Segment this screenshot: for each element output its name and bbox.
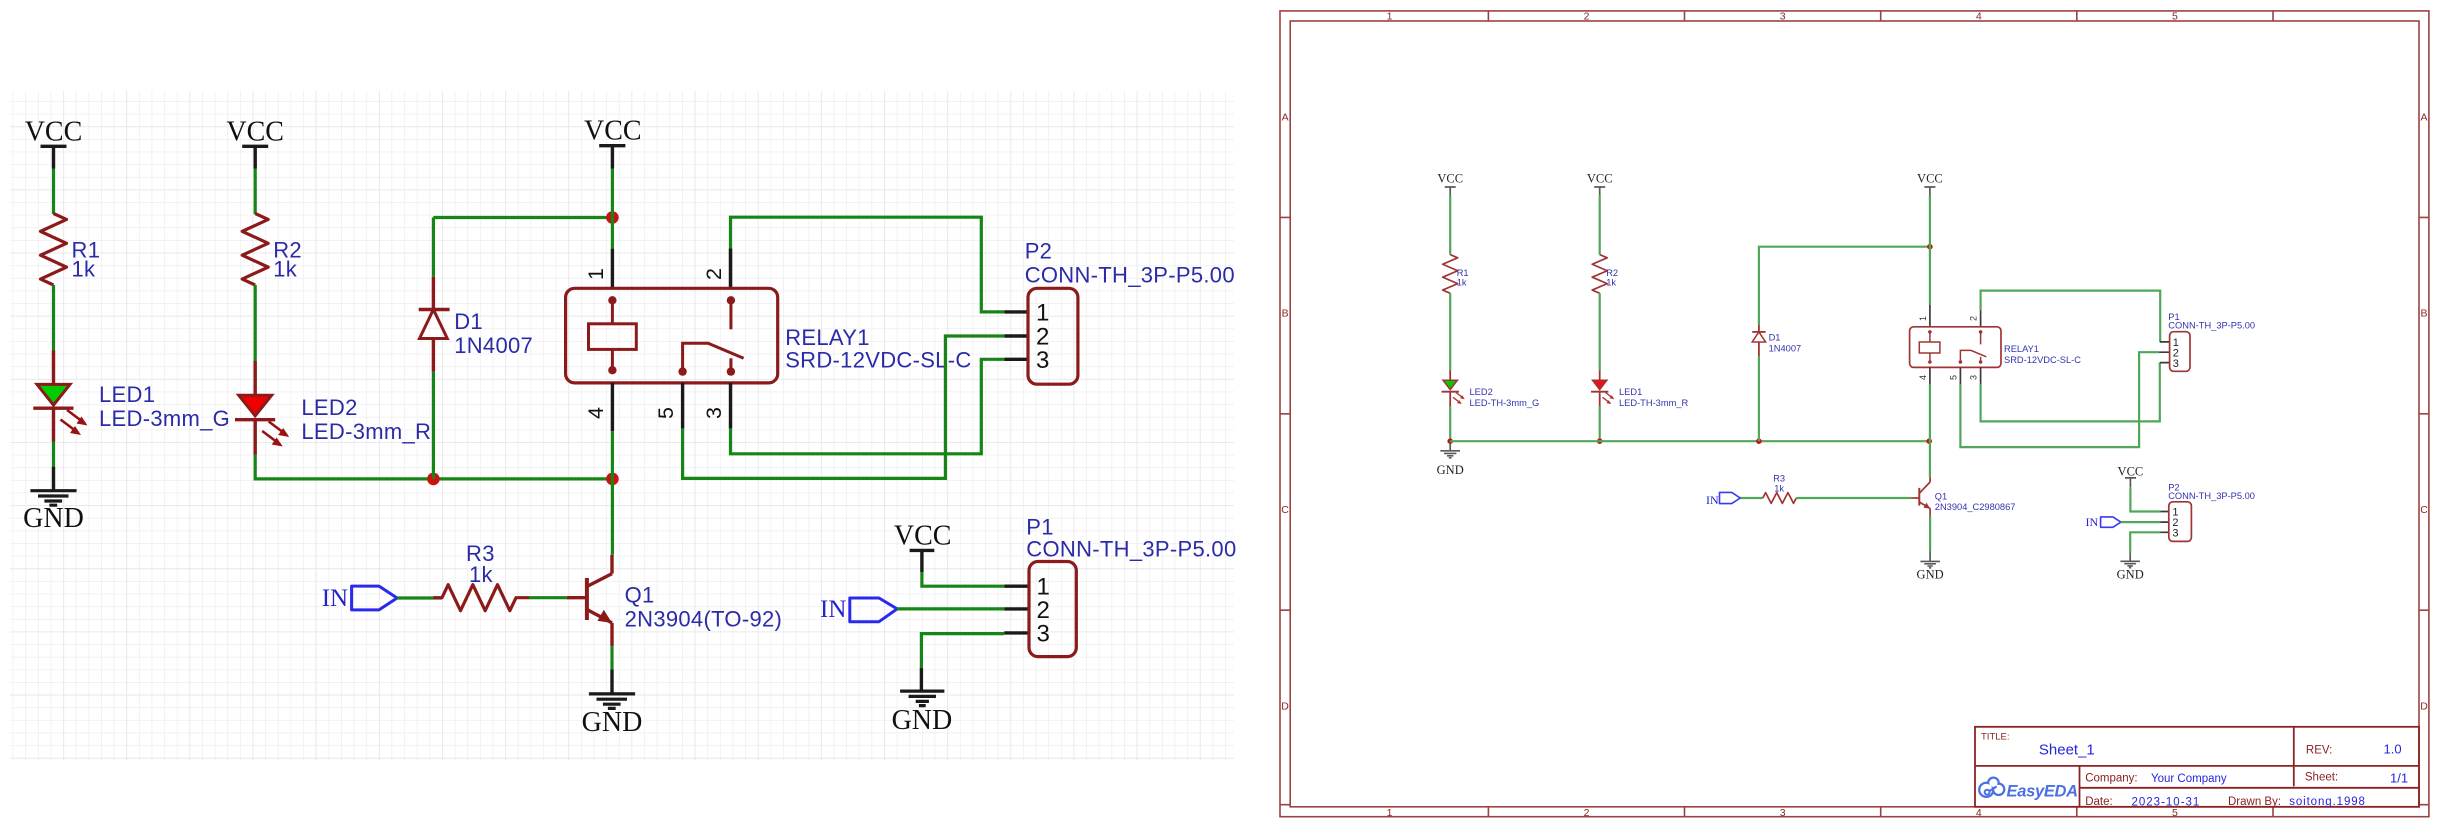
svg-text:SRD-12VDC-SL-C: SRD-12VDC-SL-C [2004,355,2081,365]
svg-text:GND: GND [1437,463,1464,477]
relay pin 3 stub (right) [1980,367,1982,384]
relay pin 4 stub [611,383,614,431]
LED LED2 green (right) [1442,371,1540,409]
svg-text:Date:: Date: [2085,796,2113,808]
svg-text:RELAY1: RELAY1 [2004,344,2039,354]
svg-text:2: 2 [1584,11,1590,23]
svg-text:4: 4 [1918,375,1928,380]
LED LED2 (red) [235,361,431,455]
junction (LED2 / rail / GND) [1447,438,1453,444]
svg-text:1k: 1k [72,257,97,282]
svg-text:P2: P2 [1025,239,1053,264]
relay pin 5 stub (right) [1959,367,1961,384]
wire R1 to LED1 [52,285,55,351]
svg-text:LED-3mm_R: LED-3mm_R [301,419,431,444]
svg-text:3: 3 [1969,375,1979,380]
svg-text:IN: IN [1706,493,1719,507]
diode D1 1N4007 [419,277,533,372]
power flag VCC (col R2) [226,117,284,169]
wire LED2 to rail (right) [1449,406,1451,441]
relay RELAY1 body (right) [1910,327,2082,368]
svg-text:3: 3 [702,407,726,419]
sheet border frame [1280,11,2429,817]
svg-text:R1: R1 [1457,268,1469,278]
svg-text:VCC: VCC [2118,465,2144,479]
left panel grid background [10,91,1234,760]
frame row letters (left) [1281,111,1289,712]
wire relay pin 2 to P2 pin 1 [731,217,1005,312]
svg-text:LED-TH-3mm_R: LED-TH-3mm_R [1619,398,1688,408]
svg-text:LED-TH-3mm_G: LED-TH-3mm_G [1470,398,1540,408]
svg-text:5: 5 [654,407,678,419]
ground GND (Q1) [582,669,643,738]
svg-text:VCC: VCC [1917,172,1943,186]
junction (pin4 / bottom rail / Q1 collector) [606,473,619,486]
net flag IN (to R3) [322,585,397,612]
svg-text:soitong.1998: soitong.1998 [2289,796,2366,808]
svg-text:LED1: LED1 [1619,387,1642,397]
ground GND (col R1, right) [1437,441,1464,477]
power flag VCC (relay column) [584,116,642,169]
wire VCC to top rail junction [611,169,614,218]
svg-text:A: A [1282,111,1289,123]
wire LED1 to rail (right) [1599,406,1601,441]
svg-text:Drawn By:: Drawn By: [2228,796,2281,808]
svg-text:CONN-TH_3P-P5.00: CONN-TH_3P-P5.00 [2168,321,2255,331]
title block [1975,727,2419,809]
wire R3 to Q1 base [529,596,567,599]
wire IN to P1 pin 2 [897,607,1004,610]
wire VCC to R2 [254,169,257,215]
wire R3 to Q1 base (right) [1796,497,1911,499]
relay pin 3 stub [729,383,732,429]
power flag VCC (col R2, right) [1587,172,1613,195]
resistor R3 (right) [1763,474,1797,504]
svg-text:1k: 1k [469,562,494,587]
svg-text:5: 5 [2172,11,2178,23]
junction (top rail / VCC column, right) [1927,244,1933,250]
wire relay pin 3 to P1 pin 3 (right) [1981,363,2160,422]
svg-text:C: C [1281,504,1289,516]
svg-text:Q1: Q1 [1935,492,1947,502]
wire relay pin 5 to P1 pin 2 (right) [1960,352,2159,447]
diode D1 1N4007 (right) [1752,325,1801,356]
svg-text:2N3904_C2980867: 2N3904_C2980867 [1935,502,2016,512]
junction (LED1 / rail) [1597,438,1603,444]
svg-text:VCC: VCC [226,117,284,148]
svg-text:CONN-TH_3P-P5.00: CONN-TH_3P-P5.00 [2168,491,2255,501]
wire VCC to P2 pin 1 (right) [2130,487,2160,511]
svg-text:VCC: VCC [584,116,642,147]
svg-text:RELAY1: RELAY1 [785,325,870,350]
svg-text:B: B [2420,308,2427,320]
wire D1 bottom lead to rail [432,372,435,479]
wire relay pin 4 to bottom rail [611,431,614,479]
wire IN to P2 pin 2 (right) [2121,521,2161,523]
frame column numbers (top) [1387,11,2178,23]
wire Q1 collector to junction [611,479,614,555]
resistor R1 (right) [1443,255,1469,294]
junction (pin4 column / rail, right) [1926,438,1932,444]
svg-text:Sheet_1: Sheet_1 [2039,742,2095,759]
power flag VCC (col R1, right) [1437,172,1463,195]
svg-text:REV:: REV: [2306,744,2332,756]
svg-text:GND: GND [892,705,953,736]
svg-text:D: D [1281,701,1289,713]
relay pin 1 stub [611,249,614,289]
transistor Q1 2N3904_C2980867 (right) [1911,477,2015,516]
svg-text:1N4007: 1N4007 [454,333,533,358]
svg-text:1: 1 [1387,807,1393,819]
EasyEDA logo [1979,778,2077,801]
wire bottom rail D1 to relay pin4 column [433,477,612,480]
svg-text:D1: D1 [1769,332,1781,342]
LED LED1 (green) [33,351,230,442]
LED LED1 red (right) [1591,371,1688,409]
svg-text:3: 3 [1780,807,1786,819]
svg-text:B: B [1282,308,1289,320]
svg-text:1k: 1k [1774,483,1784,493]
relay pin 5 stub [681,383,684,429]
svg-text:SRD-12VDC-SL-C: SRD-12VDC-SL-C [785,348,971,373]
svg-text:1: 1 [1036,300,1049,327]
relay pin 2 stub [729,249,732,289]
wire relay pin 3 to P2 pin 3 [731,359,1005,454]
wire relay pin 4 to rail (right) [1929,384,1931,441]
connector P2 CONN-TH_3P-P5.00 (right) [2161,483,2255,542]
svg-text:1N4007: 1N4007 [1769,343,1802,353]
net flag IN (to R3, right) [1706,492,1740,506]
svg-text:5: 5 [1949,375,1959,380]
power flag VCC (P2, right) [2118,465,2144,488]
svg-text:IN: IN [820,596,846,623]
wire top rail D1 to VCC column [433,216,612,219]
wire R2 to LED2 [254,285,257,361]
wire LED2 down to bottom rail [255,455,433,479]
wire D1 top lead [432,218,435,277]
junction (D1 / rail, right) [1756,438,1762,444]
resistor R1 [41,214,101,286]
wire relay pin 5 to P2 pin 2 [683,336,1005,478]
svg-text:1k: 1k [1457,278,1467,288]
svg-text:3: 3 [1780,11,1786,23]
junction (D1 / bottom rail) [427,473,440,486]
svg-text:3: 3 [2173,358,2179,370]
wire VCC to R2 (right) [1599,195,1601,255]
connector P1 CONN-TH_3P-P5.00 [1004,515,1236,657]
svg-text:1/1: 1/1 [2390,771,2408,786]
svg-text:IN: IN [2086,515,2099,529]
resistor R2 [242,214,302,286]
relay pin 1 stub (right) [1929,305,1931,327]
svg-text:EasyEDA: EasyEDA [2007,783,2078,801]
ground GND (col R1) [23,467,84,534]
svg-text:1: 1 [1918,316,1928,321]
svg-text:A: A [2420,111,2427,123]
wire VCC to P1 pin 1 [922,572,1004,586]
svg-text:VCC: VCC [25,117,83,148]
svg-text:GND: GND [23,503,84,534]
wire VCC down to relay pin 1 (right) [1929,195,1931,305]
svg-text:4: 4 [1976,11,1982,23]
wire Q1 emitter down (right) [1929,516,1931,551]
frame row letters (right) [2420,111,2428,712]
svg-text:CONN-TH_3P-P5.00: CONN-TH_3P-P5.00 [1026,537,1236,562]
svg-text:LED2: LED2 [1470,387,1493,397]
frame column numbers (bottom) [1387,807,2178,819]
svg-text:2N3904(TO-92): 2N3904(TO-92) [625,607,783,632]
wire junction down to relay pin 1 [611,218,614,249]
ground GND (P1) [892,668,953,736]
relay pin 2 stub (right) [1980,311,1982,327]
net flag IN (to P2, right) [2086,515,2121,529]
ground GND (P2, right) [2117,553,2144,582]
svg-text:3: 3 [1037,621,1050,648]
svg-text:GND: GND [582,707,643,738]
svg-text:1: 1 [584,268,608,280]
connector P2 CONN-TH_3P-P5.00 [1004,239,1235,385]
svg-text:2: 2 [1584,807,1590,819]
wire IN to R3 (right) [1740,497,1763,499]
relay RELAY1 SRD-12VDC-SL-C body [566,288,972,383]
svg-text:VCC: VCC [1437,172,1463,186]
svg-text:VCC: VCC [1587,172,1613,186]
power flag VCC (relay column, right) [1917,172,1943,195]
svg-text:LED1: LED1 [99,382,155,407]
wire R2 to LED1 (right) [1599,293,1601,370]
svg-text:D1: D1 [454,309,483,334]
net flag IN (to P1) [820,596,897,623]
wire LED1 to GND [52,442,55,467]
svg-text:Your Company: Your Company [2151,773,2227,785]
wire relay pin 2 to P1 pin 1 (right) [1981,291,2161,342]
ground GND (Q1, right) [1917,551,1944,582]
svg-text:GND: GND [1917,568,1944,582]
connector P1 CONN-TH_3P-P5.00 (right) [2159,312,2255,371]
resistor R2 (right) [1592,255,1618,294]
svg-text:TITLE:: TITLE: [1981,732,2010,743]
svg-text:Sheet:: Sheet: [2305,771,2338,783]
wire VCC to R1 [52,169,55,215]
wire IN to R3 [397,596,442,599]
relay pin 4 stub (right) [1929,367,1931,384]
resistor R3 [433,541,529,611]
svg-text:1k: 1k [1606,278,1616,288]
svg-text:D: D [2420,701,2428,713]
svg-text:1: 1 [1387,11,1393,23]
wire D1 bottom lead (right) [1758,356,1760,441]
junction (top rail / relay VCC column) [606,211,619,224]
wire GND to P2 pin 3 (right) [2130,532,2160,553]
power flag VCC (col R1) [25,117,83,169]
svg-text:2: 2 [702,268,726,280]
wire VCC to R1 (right) [1449,195,1451,255]
wire Q1 emitter to GND [610,646,613,669]
svg-text:R3: R3 [1773,474,1785,484]
wire Q1 collector to junction (right) [1929,441,1931,477]
svg-text:LED2: LED2 [301,395,357,420]
svg-text:LED-3mm_G: LED-3mm_G [99,406,230,431]
svg-text:VCC: VCC [894,521,952,552]
svg-text:4: 4 [1976,807,1982,819]
svg-text:GND: GND [2117,568,2144,582]
svg-text:Q1: Q1 [625,583,655,608]
wire bottom rail (right) [1450,440,1929,442]
svg-text:R2: R2 [1606,268,1618,278]
svg-text:5: 5 [2172,807,2178,819]
wire R1 to LED2 (right) [1449,293,1451,370]
svg-text:C: C [2420,504,2428,516]
svg-text:Company:: Company: [2085,772,2137,784]
svg-text:3: 3 [1036,347,1049,374]
svg-text:1k: 1k [273,257,298,282]
power flag VCC (P1) [894,521,952,573]
svg-text:CONN-TH_3P-P5.00: CONN-TH_3P-P5.00 [1025,263,1235,288]
wire D1 top lead to top rail (right) [1759,247,1930,325]
transistor Q1 2N3904 [567,555,782,646]
svg-text:2023-10-31: 2023-10-31 [2132,796,2201,808]
wire GND to P1 pin 3 [921,634,1004,669]
svg-text:IN: IN [322,585,348,612]
svg-text:2: 2 [1969,316,1979,321]
svg-text:3: 3 [2172,527,2178,539]
svg-text:1.0: 1.0 [2384,742,2402,757]
svg-text:4: 4 [584,407,608,419]
